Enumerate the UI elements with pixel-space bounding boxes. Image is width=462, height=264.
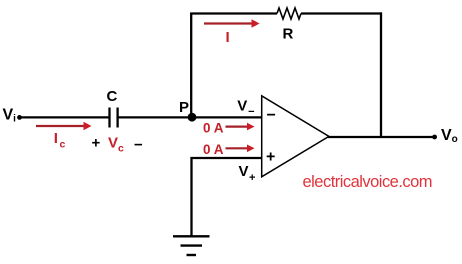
node Vi terminal dot [17,115,22,120]
wire: feedback right vertical [380,12,382,137]
svg-text:−: − [267,107,276,124]
svg-text:Vc: Vc [108,134,124,154]
svg-text:Vo: Vo [441,127,458,145]
svg-text:Vi: Vi [3,107,17,125]
svg-text:0 A: 0 A [203,121,224,136]
wire: feedback top right segment [301,12,382,14]
svg-text:0 A: 0 A [203,142,224,157]
node Vo terminal dot [432,135,437,140]
ground [173,236,210,255]
svg-text:Ic: Ic [54,130,66,151]
wire: op-amp output [328,136,434,138]
wire: capacitor to op-amp inverting input [118,116,262,118]
resistor R [277,8,301,19]
current arrow 0A into inverting input [226,123,255,131]
svg-text:R: R [283,26,294,43]
current arrow I [204,19,260,28]
wire: input from Vi to capacitor [20,116,110,118]
current arrow 0A into non-inverting input [226,145,255,153]
wire: non-inverting input to ground [192,158,263,236]
svg-text:−: − [134,137,143,154]
node P junction dot [188,113,197,122]
svg-text:C: C [107,88,118,105]
svg-text:+: + [92,134,101,151]
svg-text:V+: V+ [239,163,256,184]
svg-text:+: + [266,149,275,166]
capacitor C [110,108,118,128]
op-amp U1 [262,96,329,177]
wire: feedback left vertical [190,14,192,118]
wire: feedback top left segment [190,12,277,14]
svg-text:electricalvoice.com: electricalvoice.com [303,173,433,191]
svg-text:V−: V− [237,98,254,119]
current arrow Ic [36,122,92,131]
svg-text:P: P [179,99,189,116]
svg-text:I: I [226,29,230,46]
